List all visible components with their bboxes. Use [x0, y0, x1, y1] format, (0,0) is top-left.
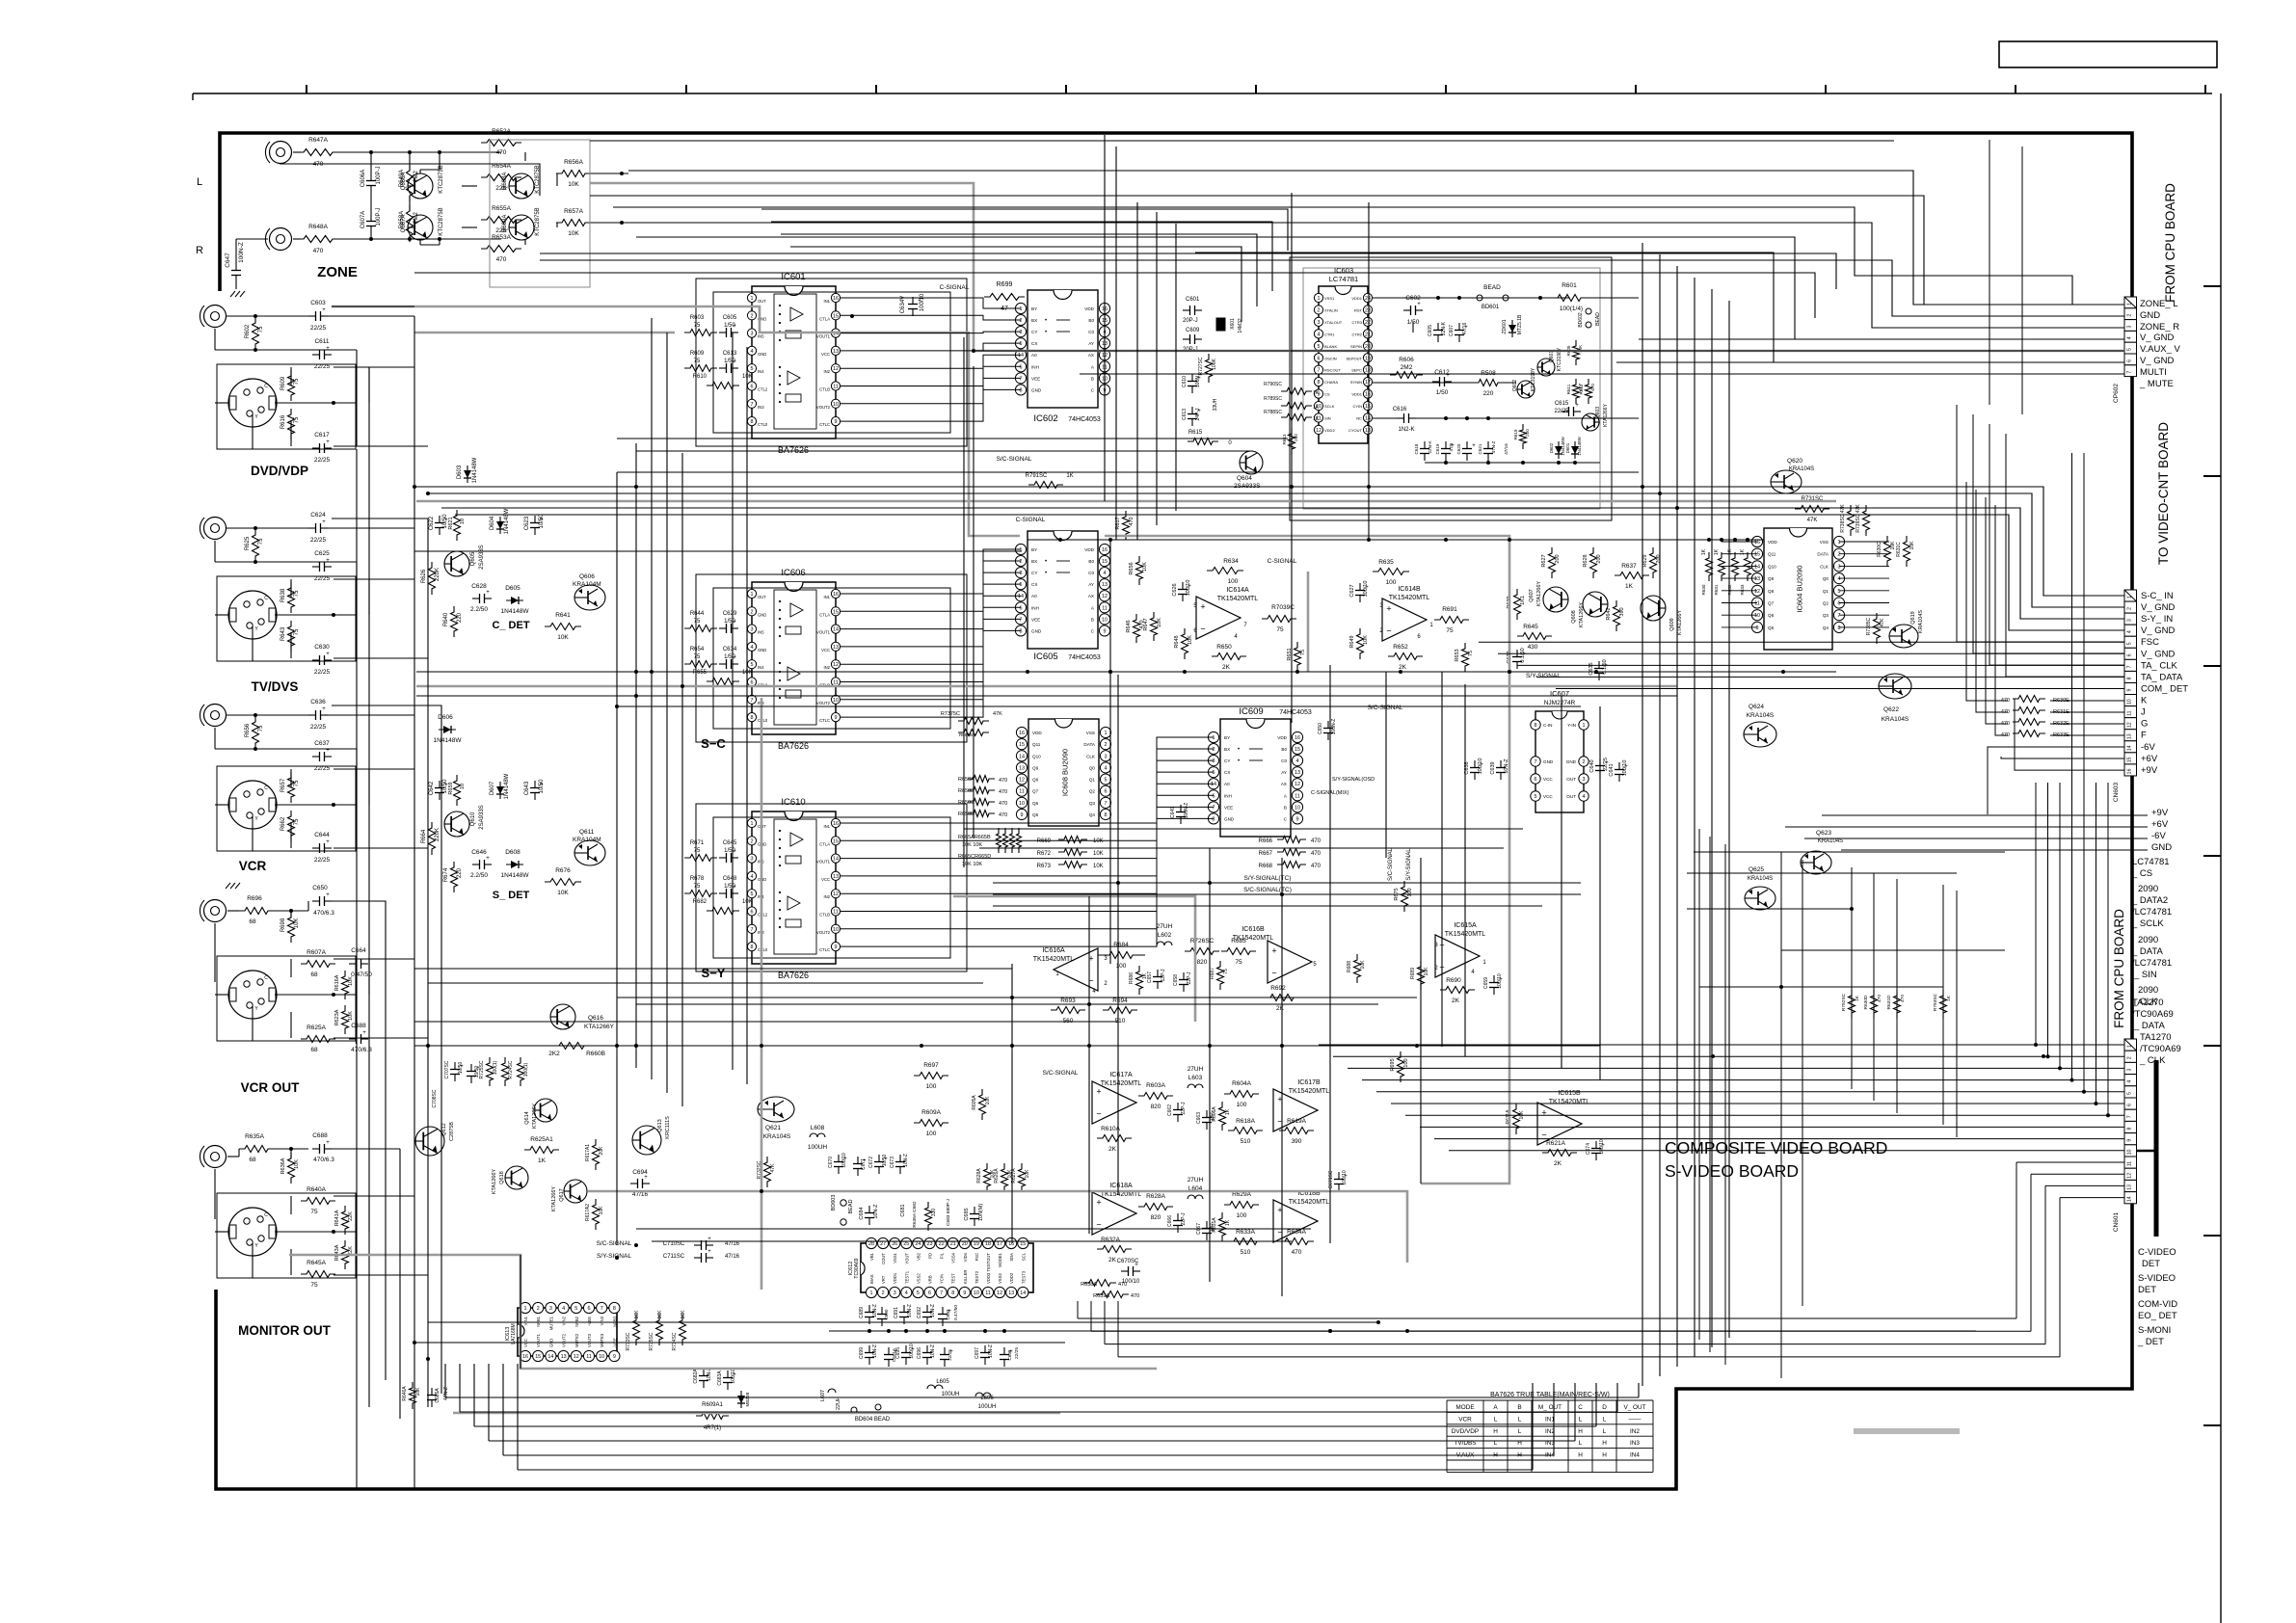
- resistor R654 75: [684, 661, 717, 668]
- svg-text:13: 13: [1754, 576, 1760, 582]
- svg-text:5: 5: [1105, 778, 1108, 784]
- svg-text:11: 11: [833, 910, 839, 916]
- svg-text:12: 12: [1754, 589, 1760, 595]
- svg-text:2: 2: [751, 609, 754, 615]
- resistor R616 75: [288, 409, 295, 439]
- svg-text:75: 75: [694, 884, 701, 890]
- svg-text:7: 7: [1213, 805, 1215, 811]
- svg-text:75: 75: [294, 780, 300, 786]
- svg-text:R619A: R619A: [1287, 1118, 1307, 1125]
- transistor Q625 KRA104S: [1745, 887, 1775, 910]
- svg-text:BX: BX: [1224, 747, 1230, 752]
- svg-text:8: 8: [751, 419, 754, 425]
- transistor Q613 KRC111S: [632, 1126, 661, 1155]
- svg-text:10K: 10K: [294, 918, 300, 929]
- transistor Q623 KRA104S: [1801, 851, 1831, 874]
- svg-text:R655A: R655A: [492, 205, 512, 212]
- resistor R7039C 75: [1262, 616, 1296, 623]
- svg-text:IN4: IN4: [1630, 1452, 1640, 1459]
- IC IC608 BU2090: [1028, 719, 1099, 826]
- RCA jack TV/DVS video in: [204, 518, 227, 540]
- svg-text:IC603: IC603: [1334, 266, 1353, 275]
- svg-text:A0: A0: [1031, 594, 1037, 599]
- capacitor C647 100N-Z: [235, 263, 237, 271]
- svg-text:G: G: [2141, 719, 2148, 730]
- right ruler tick 1: [2203, 285, 2221, 287]
- transistor Q668A KTC2875B: [509, 173, 534, 199]
- svg-text:7: 7: [751, 402, 754, 408]
- svg-text:+6V: +6V: [2151, 819, 2169, 830]
- svg-text:R628A: R628A: [976, 1168, 982, 1184]
- svg-text:——: ——: [1629, 1416, 1642, 1423]
- wire ZONE R rail: [293, 238, 301, 240]
- wire DIN internals all groups: [215, 402, 228, 404]
- svg-text:C629: C629: [723, 611, 737, 617]
- svg-text:75: 75: [294, 378, 300, 385]
- svg-text:CHARA: CHARA: [1324, 380, 1338, 385]
- svg-text:IC617B: IC617B: [1297, 1079, 1321, 1086]
- wire TV/DVS rca: [227, 527, 308, 529]
- svg-text:C-SIGNAL: C-SIGNAL: [940, 284, 970, 291]
- svg-text:BA7626: BA7626: [778, 445, 809, 455]
- svg-text:R656: R656: [245, 723, 251, 737]
- svg-text:CTLC: CTLC: [819, 718, 830, 723]
- svg-text:8: 8: [1020, 387, 1023, 393]
- svg-text:2: 2: [2127, 314, 2133, 317]
- wire h corridor 860: [964, 828, 1523, 830]
- resistor R698 10K: [288, 912, 295, 943]
- svg-text:TA1270: TA1270: [2140, 1032, 2172, 1043]
- svg-text:22/25: 22/25: [314, 575, 331, 582]
- svg-text:0.47/50: 0.47/50: [953, 1305, 959, 1320]
- svg-text:Q614: Q614: [524, 1111, 530, 1124]
- svg-text:9: 9: [963, 1290, 966, 1296]
- svg-text:R724SC: R724SC: [508, 1060, 514, 1078]
- svg-text:MUTE2: MUTE2: [574, 1333, 579, 1347]
- svg-text:S/C-SIGNAL: S/C-SIGNAL: [597, 1240, 632, 1247]
- svg-text:S-VIDEO BOARD: S-VIDEO BOARD: [1665, 1161, 1799, 1181]
- svg-text:VSS1: VSS1: [893, 1252, 897, 1263]
- capacitor C692 10N-Z: [926, 1305, 928, 1313]
- svg-text:1/50: 1/50: [724, 654, 735, 660]
- resistor R649A 2M2: [407, 165, 414, 201]
- svg-text:S-C_ IN: S-C_ IN: [2141, 591, 2174, 601]
- svg-text:2K: 2K: [1452, 998, 1460, 1004]
- resistor R643 75: [288, 621, 295, 652]
- resistor R682 10K: [707, 908, 739, 915]
- svg-text:100N-Z: 100N-Z: [1331, 719, 1337, 735]
- wire v corridor 760: [732, 333, 734, 1070]
- resistor R635 100: [1373, 569, 1409, 575]
- wire left bus v2: [427, 528, 429, 1407]
- svg-text:C671: C671: [861, 1158, 867, 1170]
- svg-text:75: 75: [694, 359, 701, 364]
- wire DVD/VDP rca: [227, 315, 308, 317]
- resistor R632A 2K: [1097, 1246, 1132, 1253]
- svg-text:100: 100: [1386, 579, 1397, 586]
- svg-text:+: +: [1200, 602, 1205, 612]
- wire bus low h4: [414, 1045, 1600, 1047]
- resistor R646A 10K: [410, 1382, 416, 1409]
- svg-text:10: 10: [1754, 613, 1760, 619]
- svg-text:C611: C611: [314, 338, 329, 345]
- transistor Q602 KTC3198Y: [1517, 381, 1535, 398]
- svg-text:R642: R642: [1606, 607, 1612, 620]
- svg-text:VCC: VCC: [1543, 777, 1553, 782]
- svg-text:VCR: VCR: [239, 859, 267, 873]
- svg-text:KRA104S: KRA104S: [1882, 716, 1909, 723]
- resistor R625 75: [253, 529, 259, 562]
- svg-text:Q8: Q8: [1032, 778, 1039, 783]
- op-amp IC618B TK15420MTL: [1273, 1200, 1318, 1242]
- resistor R604A 100: [1224, 1091, 1259, 1098]
- svg-text:-6V: -6V: [2151, 831, 2166, 841]
- svg-text:22P-J: 22P-J: [1181, 1102, 1187, 1115]
- svg-text:1N4148W: 1N4148W: [504, 773, 510, 799]
- zone block box: [490, 140, 590, 287]
- capacitor C637 22/25: [312, 756, 320, 758]
- svg-text:A0: A0: [1031, 353, 1037, 358]
- svg-text:R634A: R634A: [1287, 1229, 1307, 1236]
- svg-text:CTR1: CTR1: [1324, 332, 1335, 336]
- transistor Q624 KRA104S: [1744, 722, 1776, 747]
- svg-text:10K: 10K: [1909, 541, 1915, 550]
- svg-text:CN603: CN603: [2113, 782, 2120, 802]
- svg-text:VDD: VDD: [1768, 540, 1777, 545]
- svg-text:C694: C694: [632, 1169, 648, 1176]
- svg-text:14: 14: [1754, 564, 1760, 570]
- svg-text:7: 7: [751, 698, 754, 704]
- svg-text:R735SC: R735SC: [649, 1332, 654, 1350]
- svg-text:+: +: [322, 706, 326, 712]
- inductor L602 27UH: [1157, 942, 1172, 945]
- svg-text:+: +: [326, 892, 330, 898]
- svg-text:8: 8: [1838, 625, 1841, 631]
- wire h corridor 1020: [428, 982, 983, 984]
- svg-text:R650: R650: [1216, 644, 1232, 651]
- svg-text:R790SC: R790SC: [1264, 382, 1282, 387]
- svg-text:Q603: Q603: [1595, 407, 1601, 418]
- svg-text:Q604: Q604: [1237, 475, 1252, 482]
- svg-text:470: 470: [999, 789, 1007, 795]
- svg-text:6: 6: [2127, 653, 2133, 656]
- page frame right border: [2220, 93, 2222, 1623]
- svg-text:14: 14: [2127, 745, 2133, 751]
- diode D-MA zener: [740, 1391, 742, 1408]
- resistor R633A 510: [1228, 1238, 1263, 1245]
- svg-text:R615: R615: [1188, 430, 1203, 436]
- resistor R789SC 1K: [1281, 403, 1312, 410]
- wire bus TC h2: [993, 893, 1581, 895]
- svg-text:Q605: Q605: [470, 551, 476, 566]
- thick bus bar CN601: [2154, 1060, 2159, 1237]
- svg-text:11: 11: [833, 680, 839, 686]
- svg-text:L602: L602: [1158, 932, 1172, 939]
- svg-text:BIAS: BIAS: [869, 1274, 874, 1284]
- resistor R731SC 47K: [1795, 506, 1829, 513]
- svg-text:200: 200: [1656, 554, 1662, 563]
- svg-text:C635: C635: [1589, 662, 1594, 675]
- board outline thick border: [216, 133, 2132, 1489]
- grey highlight wire mid vertical: [1307, 572, 1310, 672]
- svg-text:3: 3: [1020, 330, 1023, 335]
- svg-text:MUTE1: MUTE1: [548, 1316, 553, 1330]
- wire left bus v4: [385, 911, 387, 1380]
- svg-text:SDA: SDA: [1009, 1253, 1014, 1262]
- svg-text:C690: C690: [884, 1309, 889, 1319]
- wire bus low h3: [414, 1021, 1118, 1023]
- svg-text:R628A: R628A: [1146, 1193, 1166, 1200]
- svg-text:R639A: R639A: [1093, 1293, 1109, 1299]
- svg-text:24: 24: [1365, 296, 1371, 302]
- wire CN601 pins 11-14 from bottom: [2016, 1161, 2124, 1163]
- svg-text:_ DET: _ DET: [2137, 1337, 2164, 1347]
- svg-text:22N-K: 22N-K: [1441, 321, 1447, 335]
- svg-text:4: 4: [2127, 1080, 2133, 1083]
- svg-text:33UH: 33UH: [1213, 398, 1218, 411]
- svg-text:0.1/50: 0.1/50: [1520, 648, 1526, 662]
- svg-text:R696: R696: [247, 895, 262, 902]
- resistor R613 200: [1289, 428, 1295, 455]
- svg-text:9: 9: [1104, 628, 1107, 634]
- svg-text:YOUT: YOUT: [904, 1253, 909, 1264]
- page frame left end tick: [192, 93, 194, 100]
- svg-text:TA_ CLK: TA_ CLK: [2141, 660, 2178, 671]
- svg-text:TEST: TEST: [951, 1273, 956, 1284]
- DIN box TV/DVS: [217, 576, 356, 661]
- svg-text:INH: INH: [1224, 793, 1232, 798]
- wire top verticals x1158: [1115, 146, 1117, 540]
- svg-text:100/10: 100/10: [1186, 580, 1191, 597]
- svg-text:C626: C626: [1172, 583, 1178, 596]
- svg-text:C-IN: C-IN: [1543, 723, 1552, 728]
- capacitor C674 100/10: [1595, 1141, 1597, 1149]
- wire bus under IC612 1: [829, 1330, 1976, 1332]
- diode D606 1N4148W: [439, 729, 456, 731]
- svg-text:+: +: [326, 439, 330, 445]
- capacitor C670SC 100/10: [1121, 1270, 1129, 1272]
- svg-text:CTL0: CTL0: [758, 718, 768, 723]
- svg-text:B0: B0: [1088, 318, 1094, 323]
- svg-text:R633A: R633A: [1236, 1229, 1256, 1236]
- svg-text:IC617A: IC617A: [1109, 1072, 1133, 1078]
- svg-text:5: 5: [1213, 770, 1215, 776]
- svg-text:R684: R684: [1113, 942, 1129, 948]
- svg-text:470: 470: [1118, 1282, 1127, 1288]
- svg-text:C671SC: C671SC: [1328, 1170, 1334, 1188]
- svg-text:−: −: [1271, 969, 1276, 978]
- svg-text:VEE: VEE: [1031, 376, 1040, 381]
- svg-text:VCC: VCC: [821, 877, 830, 882]
- svg-text:7: 7: [2127, 371, 2133, 374]
- svg-text:1K: 1K: [1225, 1108, 1231, 1115]
- svg-text:820: 820: [1151, 1104, 1161, 1110]
- resistor R660B 2K2: [553, 1043, 590, 1050]
- resistor R617A1 20K: [593, 1139, 600, 1170]
- svg-text:C643: C643: [524, 781, 530, 795]
- transistor Q604 2SA933S: [1240, 451, 1263, 474]
- svg-text:470: 470: [999, 778, 1007, 784]
- svg-text:10K: 10K: [990, 1169, 996, 1179]
- svg-text:IC614A: IC614A: [1226, 587, 1249, 594]
- svg-text:VOUT2: VOUT2: [816, 405, 831, 410]
- wire left bus v3: [441, 715, 442, 1394]
- svg-text:PD: PD: [928, 1253, 933, 1259]
- svg-text:1: 1: [1020, 306, 1023, 312]
- capacitor C650 470/6.3: [312, 900, 320, 902]
- IC IC612 TC90A69: [861, 1243, 1033, 1292]
- svg-text:2: 2: [1020, 559, 1023, 565]
- svg-text:4: 4: [1583, 794, 1586, 800]
- svg-text:S-MONI: S-MONI: [2138, 1325, 2171, 1336]
- wire low pair 1275: [636, 1228, 1311, 1230]
- svg-text:R621: R621: [448, 517, 454, 529]
- svg-text:R623A: R623A: [334, 1009, 340, 1025]
- svg-text:CTLA: CTLA: [819, 612, 830, 617]
- wire ZONE L rail: [293, 151, 301, 153]
- svg-text:Q612: Q612: [441, 1123, 447, 1135]
- capacitor C612 1/50: [1432, 381, 1440, 383]
- svg-text:100/10: 100/10: [1342, 1170, 1348, 1185]
- wire bus mid h1: [414, 487, 2124, 596]
- svg-text:CY: CY: [1031, 330, 1037, 334]
- resistor R639A 470: [1096, 1291, 1129, 1298]
- resistor R694 510: [1103, 1007, 1137, 1014]
- svg-text:L: L: [1579, 1440, 1583, 1447]
- svg-text:R609: R609: [690, 351, 705, 357]
- svg-text:2090: 2090: [2138, 985, 2158, 996]
- svg-text:6: 6: [1105, 789, 1108, 795]
- svg-text:−: −: [1386, 626, 1391, 636]
- wire res joins: [409, 152, 411, 171]
- wire mid v14: [1281, 858, 1283, 1296]
- svg-text:9: 9: [835, 419, 838, 425]
- svg-text:Q4: Q4: [1823, 625, 1829, 630]
- svg-text:L: L: [1603, 1416, 1607, 1423]
- resistor R658A 2M2: [407, 205, 414, 242]
- wire bus SY h2: [416, 695, 1677, 697]
- svg-text:DVD/VDP: DVD/VDP: [1452, 1428, 1479, 1435]
- resistor R686 1K: [1136, 966, 1143, 995]
- svg-text:KTC3198Y: KTC3198Y: [1531, 367, 1536, 391]
- svg-text:10/50: 10/50: [882, 1155, 888, 1167]
- svg-text:R617A2: R617A2: [585, 1204, 591, 1221]
- svg-text:C634: C634: [723, 647, 737, 652]
- svg-text:R633: R633: [1740, 584, 1745, 595]
- svg-text:C0: C0: [1088, 330, 1094, 334]
- svg-text:470: 470: [1311, 838, 1322, 844]
- capacitor C670 100/10: [838, 1155, 840, 1162]
- IC IC601 outer loop 1: [696, 279, 967, 446]
- transistor Q612 C2875B: [415, 1127, 444, 1156]
- svg-text:VIN1: VIN1: [523, 1316, 528, 1325]
- svg-text:75: 75: [694, 848, 701, 854]
- svg-text:390: 390: [1619, 607, 1625, 616]
- transistor Q608 KTA1266Y: [1583, 592, 1608, 617]
- svg-text:R643A: R643A: [334, 1244, 340, 1261]
- svg-text:R674: R674: [443, 867, 449, 882]
- svg-text:5: 5: [1318, 344, 1321, 350]
- svg-text:12: 12: [833, 366, 839, 372]
- svg-text:Q0: Q0: [1823, 576, 1829, 581]
- svg-text:LC74781: LC74781: [2132, 857, 2170, 867]
- svg-text:1: 1: [1318, 296, 1321, 302]
- svg-text:R656A: R656A: [564, 159, 584, 166]
- resistor R640 220: [451, 606, 458, 637]
- wire center v2: [651, 318, 653, 1079]
- svg-text:10K: 10K: [681, 1310, 686, 1319]
- svg-text:NFB1: NFB1: [536, 1316, 541, 1326]
- capacitor C607 47/16: [1458, 323, 1460, 331]
- resistor R792SC 1K: [1849, 990, 1855, 1019]
- svg-text:1: 1: [1020, 547, 1023, 553]
- svg-text:10N-Z: 10N-Z: [988, 1344, 994, 1358]
- wire +6V line: [1785, 826, 2148, 828]
- svg-text:13: 13: [1102, 582, 1108, 588]
- svg-text:BX: BX: [1031, 559, 1037, 564]
- svg-text:R636A C682: R636A C682: [912, 1201, 918, 1228]
- resistor R656A 10K: [556, 171, 591, 177]
- capacitor C638 100/10: [1474, 760, 1476, 768]
- capacitor C605 22N-K: [1437, 323, 1439, 331]
- svg-text:EO_ DET: EO_ DET: [2138, 1311, 2177, 1321]
- svg-text:CTLB: CTLB: [819, 913, 830, 918]
- capacitor C622 10/50: [439, 516, 441, 523]
- svg-text:7: 7: [2127, 1115, 2133, 1118]
- svg-text:S/C-SIGNAL: S/C-SIGNAL: [1388, 847, 1394, 881]
- svg-text:10K: 10K: [1188, 635, 1193, 645]
- wire left bus x383: [368, 367, 370, 1407]
- inductor L603 27UH: [1188, 1084, 1203, 1088]
- inductor L606 100UH: [975, 1393, 991, 1397]
- op-amp IC615B TK15420MTL: [1537, 1103, 1582, 1145]
- svg-text:IN2: IN2: [1630, 1428, 1640, 1435]
- svg-text:74HC4053: 74HC4053: [1068, 416, 1101, 423]
- svg-text:470: 470: [1129, 517, 1135, 525]
- resistor R617A2 10K: [593, 1199, 600, 1230]
- svg-text:7: 7: [751, 927, 754, 933]
- capacitor C623 10/50: [534, 516, 536, 523]
- svg-text:C645: C645: [723, 840, 737, 846]
- svg-text:V_ OUT: V_ OUT: [1623, 1404, 1645, 1411]
- svg-text:KRA104S: KRA104S: [763, 1133, 791, 1140]
- connector CN603: [2124, 590, 2137, 601]
- wire mid v9: [1385, 672, 1387, 858]
- svg-text:R792SC: R792SC: [1841, 993, 1847, 1011]
- svg-text:VIN2: VIN2: [562, 1316, 567, 1325]
- svg-text:200: 200: [1294, 434, 1298, 441]
- IC603 inner box grey: [1303, 268, 1600, 509]
- resistor R611 4K7: [1573, 379, 1580, 404]
- svg-text:7: 7: [1838, 613, 1841, 619]
- svg-text:2: 2: [1318, 307, 1321, 313]
- svg-text:5: 5: [751, 662, 754, 668]
- svg-text:XTALIN: XTALIN: [1324, 307, 1338, 312]
- svg-text:R610: R610: [693, 374, 707, 380]
- capacitor C636: [308, 714, 316, 716]
- svg-text:10K: 10K: [1025, 1169, 1030, 1179]
- svg-text:4: 4: [751, 645, 754, 651]
- svg-text:2: 2: [751, 313, 754, 319]
- svg-text:7: 7: [1535, 759, 1537, 765]
- wire center v4: [681, 453, 683, 1106]
- op-amp IC618A TK15420MTL: [1092, 1192, 1136, 1235]
- svg-text:R660B: R660B: [586, 1051, 605, 1057]
- RCA jack VCR OUT video: [204, 900, 227, 922]
- svg-text:R662: R662: [280, 816, 286, 831]
- resistor R726SC 820: [1185, 948, 1219, 955]
- svg-text:75: 75: [694, 619, 701, 625]
